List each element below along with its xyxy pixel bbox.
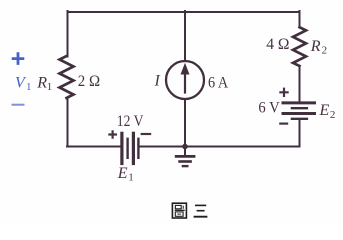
svg-text:1: 1	[128, 172, 134, 184]
svg-text:6 V: 6 V	[258, 100, 280, 117]
svg-text:1: 1	[47, 81, 53, 93]
svg-text:4 Ω: 4 Ω	[266, 36, 289, 53]
svg-text:2: 2	[322, 44, 328, 56]
svg-text:2 Ω: 2 Ω	[78, 73, 100, 90]
svg-text:12 V: 12 V	[117, 113, 144, 130]
svg-text:E: E	[117, 165, 128, 182]
svg-text:6 A: 6 A	[208, 75, 229, 92]
svg-text:R: R	[36, 74, 47, 91]
svg-text:I: I	[154, 73, 161, 90]
svg-text:1: 1	[26, 81, 32, 93]
svg-text:2: 2	[330, 109, 336, 121]
svg-text:E: E	[319, 102, 330, 119]
svg-text:R: R	[310, 38, 321, 55]
